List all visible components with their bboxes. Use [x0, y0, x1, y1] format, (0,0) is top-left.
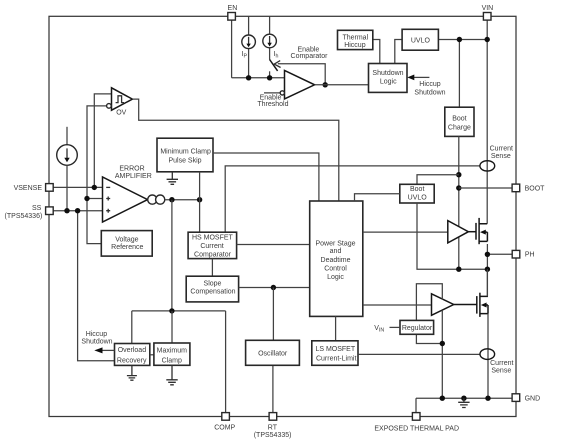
wire oscillator to RT pin [272, 365, 274, 412]
wire boot uvlo bottom to PH node [417, 203, 487, 269]
minus glyph error amp [106, 186, 110, 188]
wire PH node to PH pin [487, 253, 512, 255]
svg-text:Threshold: Threshold [257, 101, 288, 108]
svg-text:Clamp: Clamp [162, 357, 182, 364]
wire Ip source to enable node [248, 49, 250, 78]
svg-text:Hiccup: Hiccup [86, 331, 108, 338]
svg-text:Sense: Sense [491, 368, 511, 375]
svg-text:PH: PH [525, 252, 535, 259]
svg-text:VIN: VIN [482, 5, 494, 12]
svg-text:IP: IP [242, 51, 248, 59]
wire thermal hiccup to shutdown logic [373, 40, 380, 64]
svg-text:Thermal: Thermal [342, 35, 368, 42]
wire boot net to boot uvlo top [417, 175, 459, 185]
pin EN [228, 13, 236, 21]
svg-text:RT: RT [268, 425, 278, 432]
switch blade on Ih [270, 60, 278, 71]
box boot charge [445, 107, 474, 136]
wire Ih source to switch [269, 48, 271, 60]
junction boot net upper [456, 172, 461, 177]
pin EXPOSED THERMAL PAD [412, 413, 420, 421]
svg-text:Overload: Overload [118, 347, 147, 354]
box HS MOSFET current comparator [188, 232, 237, 258]
wire switch control from enable comparator output [278, 64, 325, 85]
wire VIN pin to VIN rail and down through current sense to HS drain [486, 20, 488, 223]
svg-text:Shutdown: Shutdown [81, 339, 112, 346]
svg-text:UVLO: UVLO [411, 37, 431, 44]
wire hiccup net SS line down to overload recovery [78, 211, 115, 361]
junction min clamp node [197, 197, 202, 202]
ground symbol on ground rail [458, 398, 469, 407]
wire COMP net to COMP pin [225, 311, 227, 413]
svg-text:Minimum Clamp: Minimum Clamp [160, 148, 211, 155]
hysteresis glyph inside OV comparator [116, 96, 124, 103]
junction PH node [485, 252, 490, 257]
wire VIN rail UVLO to right border [438, 39, 487, 41]
pin RT [269, 413, 277, 421]
inverting bubble enable comparator [280, 91, 284, 95]
wire LS current limit to current sense [358, 353, 480, 355]
box minimum clamp pulse skip [157, 138, 213, 172]
wire power stage to LS driver [363, 304, 432, 306]
svg-text:Logic: Logic [327, 274, 344, 281]
junction ground regulator [440, 396, 445, 401]
box oscillator [246, 340, 300, 365]
wire COMP net to maximum clamp [171, 311, 173, 343]
svg-text:Sense: Sense [491, 153, 511, 160]
svg-text:Shutdown: Shutdown [372, 70, 403, 77]
wire regulator supply loop bottom [416, 310, 442, 343]
pin VSENSE [46, 184, 54, 192]
plus glyph error amp middle [106, 197, 110, 201]
current source Ih [263, 34, 277, 48]
box shutdown logic [369, 64, 408, 93]
wire power stage to LS current limit [335, 316, 337, 340]
box thermal hiccup [338, 30, 373, 49]
junction VSENSE OV line [92, 185, 97, 190]
wire OV comparator top input [94, 94, 111, 187]
svg-text:Current-Limit: Current-Limit [316, 355, 357, 362]
junction ground symbol [461, 396, 466, 401]
wire enable node horizontal [232, 77, 285, 79]
box maximum clamp [154, 343, 190, 365]
ground below overload recovery [127, 365, 137, 380]
svg-text:(TPS54335): (TPS54335) [254, 432, 292, 439]
package outline border [49, 16, 516, 416]
svg-text:Current: Current [490, 360, 513, 367]
pin SS [46, 207, 54, 215]
wire vref to error amp middle input [87, 198, 103, 200]
wire regulator return to ground rail [441, 344, 443, 399]
wire VSENSE pin to error amp inverting input [53, 186, 102, 188]
wire COMP net error amp down [171, 200, 173, 311]
current source Ip [242, 35, 256, 49]
svg-text:Hiccup: Hiccup [419, 81, 441, 88]
svg-text:Power Stage: Power Stage [315, 240, 355, 247]
junction COMP net [169, 197, 174, 202]
pin PH [512, 250, 520, 258]
junction regulator return [440, 341, 445, 346]
svg-text:Comparator: Comparator [194, 251, 232, 258]
wire boot uvlo to power stage [355, 194, 400, 201]
wire error amp output [165, 199, 200, 201]
svg-text:UVLO: UVLO [408, 194, 428, 201]
ground below maximum clamp [166, 365, 177, 385]
junction oscillator slope line [271, 285, 276, 290]
box regulator [400, 320, 434, 334]
svg-text:and: and [330, 248, 342, 255]
box voltage reference [101, 231, 152, 257]
box UVLO [402, 29, 438, 50]
wire EN pin down to enable node [231, 20, 233, 78]
wire slope compensation output to power stage [239, 287, 310, 289]
svg-text:Boot: Boot [410, 186, 424, 193]
wire HS source to PH vertical [486, 244, 488, 296]
wire pulse skip output to power stage [213, 153, 319, 201]
svg-text:Charge: Charge [448, 124, 471, 131]
pin BOOT [512, 184, 520, 192]
junction SS hiccup net [75, 208, 80, 213]
wire OV output to power stage [132, 99, 338, 201]
svg-text:Regulator: Regulator [402, 325, 433, 332]
box boot UVLO [400, 184, 434, 203]
op-amp error amplifier [103, 177, 148, 222]
transistor HS MOSFET [468, 231, 476, 233]
wire SS pin to error amp noninverting input [53, 210, 102, 212]
junction boot net BOOT pin line [456, 185, 461, 190]
pin COMP [222, 413, 230, 421]
svg-text:Slope: Slope [204, 281, 222, 288]
wire ground rail to exposed thermal pad [415, 398, 417, 412]
transistor LS MOSFET [454, 304, 477, 306]
wire Ih source to top border [269, 16, 271, 34]
open arrowhead on switch control [274, 61, 280, 68]
wire overload recovery to maximum clamp [150, 354, 154, 356]
svg-text:Maximum: Maximum [157, 347, 188, 354]
junction SS current source [64, 208, 69, 213]
wire regulator supply loop top [416, 284, 442, 321]
svg-text:COMP: COMP [214, 424, 235, 431]
box overload recovery [115, 344, 150, 366]
svg-text:HS MOSFET: HS MOSFET [192, 234, 234, 241]
junction ground LS source [485, 396, 490, 401]
svg-text:Ih: Ih [274, 51, 279, 59]
svg-text:Shutdown: Shutdown [414, 89, 445, 96]
pin GND [512, 394, 520, 402]
hiccup shutdown arrow from overload recovery [102, 349, 115, 351]
svg-text:Reference: Reference [111, 244, 143, 251]
wire current sense to HS current comparator [225, 166, 480, 232]
box slope compensation [186, 276, 238, 302]
pin VIN [483, 13, 491, 21]
wire UVLO to shutdown logic [395, 40, 402, 64]
wire boot charge down to HS driver supply [458, 136, 460, 227]
svg-text:GND: GND [525, 395, 541, 402]
wire minimum clamp to min clamp node [199, 172, 201, 232]
svg-text:EXPOSED THERMAL PAD: EXPOSED THERMAL PAD [374, 425, 459, 432]
junction Ih node [267, 75, 272, 80]
svg-text:Recovery: Recovery [117, 357, 147, 364]
junction enable comparator output [323, 82, 328, 87]
svg-text:SS: SS [32, 205, 42, 212]
svg-text:Current: Current [490, 145, 513, 152]
svg-text:AMPLIFIER: AMPLIFIER [115, 173, 152, 180]
svg-text:Hiccup: Hiccup [344, 42, 366, 49]
wire Ip source to top border [248, 16, 250, 35]
svg-text:Comparator: Comparator [291, 53, 329, 60]
svg-text:LS MOSFET: LS MOSFET [315, 346, 355, 353]
current sense sensor HS [480, 161, 495, 171]
junction boot return [456, 267, 461, 272]
wire boot charge top [458, 40, 460, 108]
svg-text:ERROR: ERROR [119, 166, 144, 173]
wire power stage to HS driver [363, 231, 448, 233]
wire HS comparator output to power stage [237, 244, 310, 246]
svg-text:Control: Control [324, 266, 347, 273]
svg-text:Logic: Logic [380, 79, 397, 86]
svg-text:Deadtime: Deadtime [321, 257, 351, 264]
wire enable comparator output to shutdown logic [315, 84, 369, 86]
svg-text:VIN: VIN [374, 325, 384, 333]
svg-text:Oscillator: Oscillator [258, 350, 288, 357]
svg-text:Current: Current [200, 243, 223, 250]
op-amp OV comparator [112, 88, 133, 110]
junction VIN rail VIN pin [485, 37, 490, 42]
current source SS charge [66, 127, 68, 145]
junction COMP net clamp [169, 308, 174, 313]
box LS MOSFET current limit [312, 341, 358, 366]
op-amp enable comparator [285, 70, 315, 99]
wire COMP net to overload recovery [131, 311, 133, 344]
wire OV comparator bubble input down to vref net [87, 106, 106, 244]
gm output circles error amplifier [148, 195, 157, 204]
junction vref middle input [84, 196, 89, 201]
wire ground rail [416, 397, 512, 399]
wire HS comparator to slope compensation [211, 259, 213, 277]
junction Ip node [246, 75, 251, 80]
svg-text:Voltage: Voltage [115, 236, 138, 243]
op-amp HS gate driver [448, 221, 469, 243]
hiccup shutdown arrow into shutdown logic [414, 76, 430, 78]
wire LS source down through current sense to ground rail [487, 314, 489, 399]
svg-text:Compensation: Compensation [190, 289, 235, 296]
wire COMP net horizontal [132, 310, 226, 312]
svg-text:OV: OV [116, 110, 126, 117]
svg-text:BOOT: BOOT [525, 186, 546, 193]
op-amp LS gate driver [432, 294, 454, 316]
wire switch to enable node [269, 71, 271, 78]
wire oscillator to slope line [272, 288, 274, 341]
ground below minimum clamp [167, 172, 178, 185]
junction VIN rail boot charge [457, 37, 462, 42]
wire current source to SS line [66, 165, 68, 210]
svg-text:VSENSE: VSENSE [14, 185, 43, 192]
svg-text:(TPS54336): (TPS54336) [5, 213, 43, 220]
svg-text:Boot: Boot [452, 116, 466, 123]
wire VIN label to regulator [390, 326, 401, 328]
wire boot net to BOOT pin [459, 187, 512, 189]
svg-text:EN: EN [228, 5, 238, 12]
inverting bubble OV comparator [107, 104, 112, 109]
box power stage and deadtime control logic [310, 201, 363, 316]
enable threshold input stub [264, 92, 280, 94]
junction PH bootstrap [485, 267, 490, 272]
current sense sensor LS [480, 349, 495, 360]
svg-text:Pulse Skip: Pulse Skip [168, 157, 201, 164]
wire LS drain up to PH vertical [486, 269, 488, 296]
plus glyph error amp bottom [106, 209, 110, 213]
